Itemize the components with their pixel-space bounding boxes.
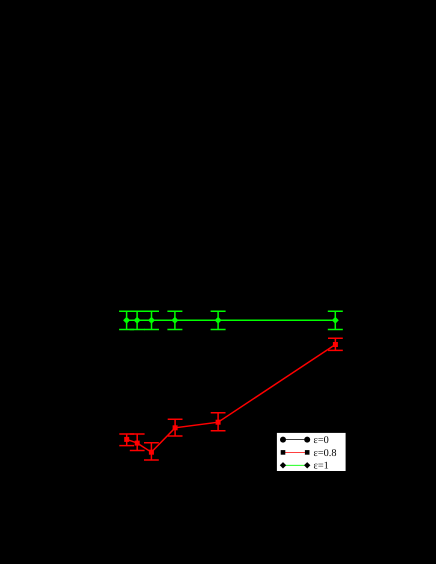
- legend row 1: eps=0 black circles: [283, 439, 307, 441]
- svg-text:ε=1: ε=1: [314, 461, 329, 472]
- svg-text:ε=0.8: ε=0.8: [314, 448, 337, 459]
- legend box: [276, 432, 346, 471]
- green series line: [127, 319, 336, 321]
- svg-text:ε=0: ε=0: [314, 435, 329, 446]
- green diamond markers: [124, 318, 338, 323]
- red series line: [127, 345, 336, 453]
- red square markers: [124, 342, 338, 455]
- green series eps=1 : error bars: [119, 311, 343, 329]
- legend row 3: eps=1 green line black diamonds: [283, 464, 307, 466]
- red series eps=0.8 : error bars: [119, 338, 342, 460]
- legend row 2: eps=0.8 red line black squares: [283, 451, 307, 453]
